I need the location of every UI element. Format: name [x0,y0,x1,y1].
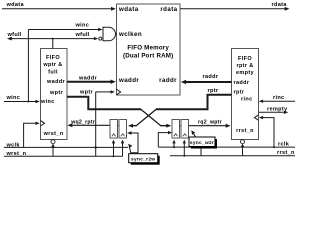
svg-text:rq2_wptr: rq2_wptr [198,120,222,126]
svg-text:waddr: waddr [118,77,139,84]
svg-text:wfull: wfull [7,32,22,38]
svg-text:wptr: wptr [49,90,64,96]
svg-text:raddr: raddr [203,74,219,80]
svg-text:wdata: wdata [6,2,25,8]
svg-text:rinc: rinc [273,95,284,101]
svg-text:wfull: wfull [75,32,90,38]
svg-text:wrst_n: wrst_n [6,151,27,157]
svg-text:rinc: rinc [241,97,253,103]
svg-text:winc: winc [6,95,21,101]
svg-text:winc: winc [75,23,90,29]
svg-text:FIFO: FIFO [46,55,60,61]
svg-text:full: full [48,70,58,76]
svg-text:wclk: wclk [6,142,21,148]
svg-text:rrst_n: rrst_n [236,128,254,134]
svg-text:raddr: raddr [234,80,250,86]
svg-text:empty: empty [236,70,255,76]
svg-text:wrst_n: wrst_n [43,131,64,137]
svg-text:wclken: wclken [118,31,142,38]
svg-text:wdata: wdata [118,6,139,13]
svg-text:rptr &: rptr & [236,63,253,69]
svg-text:FIFO Memory: FIFO Memory [127,44,169,51]
svg-text:rempty: rempty [267,107,288,113]
svg-text:FIFO: FIFO [238,56,252,62]
svg-text:waddr: waddr [78,76,97,82]
svg-text:wq2_rptr: wq2_rptr [70,119,95,125]
svg-text:(Dual Port RAM): (Dual Port RAM) [123,52,173,59]
svg-text:waddr: waddr [46,79,65,85]
svg-text:rclk: rclk [278,141,290,147]
svg-text:winc: winc [40,99,55,105]
svg-text:raddr: raddr [159,77,177,84]
svg-text:wptr &: wptr & [42,62,62,68]
svg-text:rptr: rptr [234,90,245,96]
svg-text:sync_r2w: sync_r2w [131,157,155,163]
svg-text:wptr: wptr [79,90,94,96]
svg-text:rrst_n: rrst_n [277,150,295,156]
svg-text:rptr: rptr [208,88,219,94]
svg-text:sync_w2r: sync_w2r [190,140,214,146]
svg-text:rdata: rdata [160,6,177,13]
svg-text:rdata: rdata [272,2,288,8]
